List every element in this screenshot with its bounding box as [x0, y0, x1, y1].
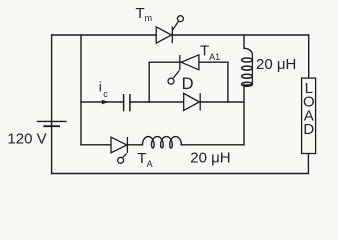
wire middle capacitor branch: [81, 101, 124, 103]
capacitor: [124, 94, 130, 111]
battery 120 V: [37, 121, 67, 126]
inductor L1 vertical 20uH: [242, 48, 253, 86]
svg-text:Tm: Tm: [136, 5, 153, 23]
wire right rail above LOAD: [308, 35, 310, 78]
svg-text:120 V: 120 V: [7, 130, 46, 147]
wire bottom rail: [52, 173, 309, 175]
svg-text:i: i: [99, 79, 102, 94]
load box: [302, 78, 316, 153]
diode D: [184, 93, 201, 110]
wire left battery vertical: [51, 35, 53, 174]
svg-text:D: D: [303, 121, 314, 138]
wire parallel box top branch: [149, 61, 180, 63]
thyristor TA: [111, 137, 127, 163]
wire diode branch: [149, 101, 184, 103]
svg-text:20 μH: 20 μH: [190, 150, 230, 167]
svg-text:20 μH: 20 μH: [256, 56, 296, 73]
thyristor TA1: [168, 55, 199, 84]
label LOAD: [303, 80, 315, 138]
wire top rail: [52, 34, 156, 36]
wire right rail below LOAD: [307, 154, 309, 174]
svg-text:c: c: [103, 89, 108, 99]
inductor L2 horizontal 20uH: [142, 137, 181, 148]
wire inductor vertical top stub: [243, 35, 245, 49]
wire parallel box right edge: [227, 62, 229, 102]
svg-text:D: D: [182, 75, 194, 93]
current arrow ic: [102, 100, 109, 105]
wire parallel box left edge: [148, 62, 150, 102]
wire inductor vertical bottom segment: [243, 85, 245, 145]
wire second left vertical: [80, 35, 82, 145]
svg-text:TA1: TA1: [200, 43, 220, 62]
svg-text:TA: TA: [137, 150, 152, 169]
thyristor Tm: [156, 16, 183, 44]
wire commutation branch (TA branch): [81, 144, 111, 146]
wire from box to inductor node: [228, 101, 244, 103]
